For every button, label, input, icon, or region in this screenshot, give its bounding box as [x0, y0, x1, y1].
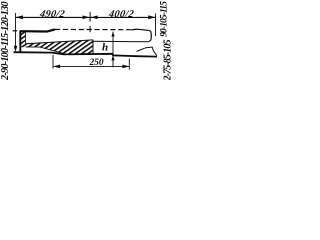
svg-text:h: h	[102, 42, 108, 54]
bottom contour	[14, 52, 157, 56]
top contour right solid and end face	[132, 29, 152, 41]
left end face	[19, 31, 21, 52]
section top edge	[26, 40, 94, 44]
250 arrow right	[122, 65, 129, 69]
250 dimension line	[53, 65, 129, 67]
section right edge	[92, 40, 94, 54]
section lower taper	[26, 47, 65, 54]
top contour solid left	[20, 29, 55, 31]
arrow mid right-pointing	[83, 16, 90, 20]
section outline top step	[25, 31, 27, 44]
top contour dashed	[55, 28, 132, 30]
extension line left	[15, 13, 17, 51]
svg-text:490/2: 490/2	[38, 9, 65, 20]
250 arrow left	[53, 65, 60, 69]
svg-text:90-105-115: 90-105-115	[160, 1, 170, 37]
arrow left of 490/2	[16, 15, 24, 19]
250 extension left	[52, 55, 54, 69]
center tick lower	[89, 26, 91, 32]
svg-text:2-75-85-105: 2-75-85-105	[163, 40, 174, 80]
dimension line top	[16, 16, 156, 18]
center tick upper	[89, 12, 91, 22]
extension line right	[155, 14, 157, 37]
lower leaf end taper	[137, 47, 157, 56]
h arrow upper	[111, 32, 114, 37]
underside line of upper leaf	[93, 41, 150, 42]
svg-text:400/2: 400/2	[107, 9, 134, 20]
arrow mid left-pointing	[91, 16, 98, 20]
arrow down at left extension	[14, 46, 18, 52]
leaf section hatched	[20, 31, 94, 54]
arrow right of 400/2	[148, 15, 155, 19]
h arrow lower	[111, 55, 114, 60]
h dimension line	[112, 32, 114, 68]
svg-text:2-90-100-115-120-130: 2-90-100-115-120-130	[0, 2, 11, 80]
svg-text:250: 250	[88, 58, 103, 68]
tick on left extension	[13, 30, 18, 32]
250 extension right	[128, 59, 130, 70]
